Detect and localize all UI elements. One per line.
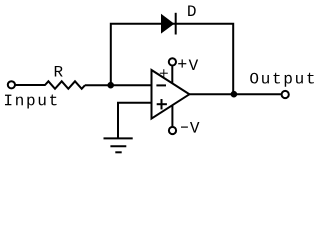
label D bbox=[188, 5, 196, 16]
ground bbox=[104, 137, 133, 139]
wire non-inverting input to ground bbox=[118, 103, 152, 138]
terminal Input bbox=[8, 81, 15, 88]
label +V bbox=[178, 63, 186, 65]
wire resistor to op-amp inverting input bbox=[85, 84, 152, 86]
resistor R bbox=[45, 81, 85, 89]
terminal Output bbox=[282, 91, 289, 98]
wire feedback loop bbox=[111, 24, 233, 94]
op-amp inverting input marker bbox=[156, 84, 166, 86]
wire input to resistor bbox=[15, 84, 46, 86]
wire +V stem bbox=[171, 66, 173, 84]
op-amp non-inverting input marker bbox=[157, 103, 167, 105]
wire op-amp output to output terminal bbox=[189, 93, 281, 95]
label Output bbox=[250, 73, 314, 87]
op-amp U1 bbox=[152, 70, 190, 119]
wire -V stem bbox=[171, 105, 173, 127]
diode D bbox=[161, 14, 174, 34]
node junction at output bbox=[231, 91, 238, 98]
label Input bbox=[5, 95, 57, 109]
node junction at inverting input bbox=[107, 82, 114, 89]
op-amp positive supply polarity marker bbox=[160, 72, 168, 74]
terminal -V bbox=[169, 127, 176, 134]
label -V bbox=[181, 126, 188, 128]
label R bbox=[55, 66, 63, 77]
terminal +V bbox=[169, 58, 176, 65]
